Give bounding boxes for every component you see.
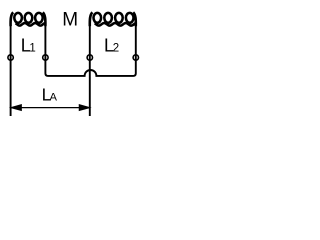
inductor L2 (90, 12, 136, 26)
node terminal 4 (133, 55, 138, 60)
node terminal 1 (8, 55, 13, 60)
svg-text:1: 1 (29, 43, 35, 55)
inductor L1 (11, 12, 46, 26)
label L1 (21, 36, 36, 56)
svg-text:2: 2 (113, 43, 119, 55)
svg-text:A: A (50, 92, 58, 104)
wire L2 left leg (89, 25, 91, 116)
node terminal 2 (43, 55, 48, 60)
wire L1 right leg to L2 right leg with hop (45, 25, 135, 76)
dimension line LA (11, 105, 89, 110)
label L2 (104, 36, 119, 56)
node terminal 3 (87, 55, 92, 60)
label LA (42, 85, 58, 105)
wire L1 left leg (10, 25, 12, 116)
svg-text:M: M (62, 10, 78, 31)
